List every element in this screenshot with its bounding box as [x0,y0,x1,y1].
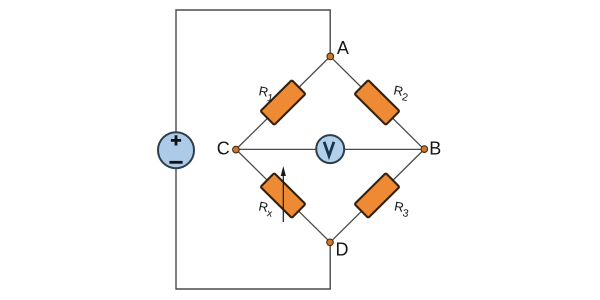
svg-text:C: C [217,139,230,159]
wire: A to B [330,56,424,149]
node D [327,239,334,246]
battery / voltage source [158,132,194,168]
resistor R1 [261,80,306,125]
wire: battery top loop to node A [176,10,330,133]
svg-text:A: A [337,38,349,58]
svg-text:D: D [336,240,349,260]
variable resistor arrow through Rx [281,166,286,222]
wire: battery bottom loop to node D [176,168,330,289]
wire: B to D [330,149,424,242]
node A [327,53,334,60]
node C [233,146,240,153]
svg-text:B: B [429,139,441,159]
resistor R2 [355,80,400,125]
wire: C to B through voltmeter [236,148,424,150]
voltmeter V [316,135,344,163]
resistor R3 [355,173,400,218]
resistor Rx (variable) [261,173,306,218]
wire: C to A [236,56,330,149]
node B [421,146,428,153]
wire: D to C [236,149,330,242]
